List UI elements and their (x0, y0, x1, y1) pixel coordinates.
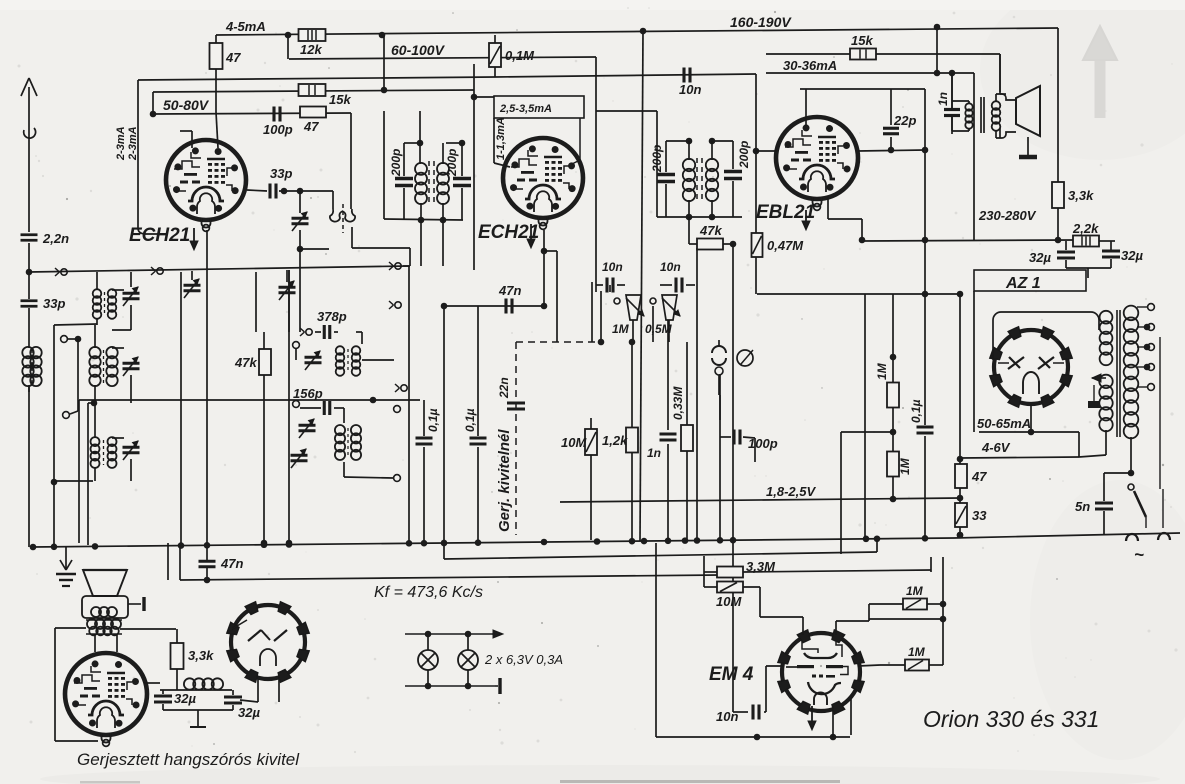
svg-text:200p: 200p (445, 149, 459, 177)
svg-text:1n: 1n (936, 92, 950, 106)
svg-text:2 x 6,3V 0,3A: 2 x 6,3V 0,3A (484, 652, 563, 667)
svg-text:32µ: 32µ (238, 705, 260, 720)
svg-text:15k: 15k (851, 33, 873, 48)
svg-text:47: 47 (225, 50, 241, 65)
svg-text:2,2k: 2,2k (1072, 221, 1099, 236)
svg-text:~: ~ (1134, 545, 1144, 564)
svg-text:0,1µ: 0,1µ (426, 408, 440, 432)
svg-text:10M: 10M (561, 435, 587, 450)
svg-text:1M: 1M (906, 584, 924, 598)
svg-text:47k: 47k (234, 355, 257, 370)
svg-text:50-65mA: 50-65mA (977, 416, 1031, 431)
svg-text:100p: 100p (263, 122, 293, 137)
svg-text:0,47M: 0,47M (767, 238, 804, 253)
svg-text:32µ: 32µ (1121, 248, 1143, 263)
svg-text:32µ: 32µ (174, 691, 196, 706)
svg-text:10n: 10n (660, 260, 681, 274)
svg-text:60-100V: 60-100V (391, 42, 446, 58)
svg-text:22n: 22n (497, 377, 511, 399)
svg-text:32µ: 32µ (1029, 250, 1051, 265)
svg-text:30-36mA: 30-36mA (783, 58, 837, 73)
svg-text:10n: 10n (602, 260, 623, 274)
svg-text:0,1µ: 0,1µ (909, 399, 923, 423)
svg-text:AZ 1: AZ 1 (1005, 275, 1041, 292)
svg-text:2,2n: 2,2n (42, 231, 69, 246)
svg-text:Gerj. kivitelnél: Gerj. kivitelnél (496, 429, 513, 532)
svg-text:1,2k: 1,2k (602, 433, 628, 448)
svg-text:Kf = 473,6 Kc/s: Kf = 473,6 Kc/s (374, 584, 483, 601)
svg-text:0,1µ: 0,1µ (463, 408, 477, 432)
svg-text:12k: 12k (300, 42, 322, 57)
svg-text:2-3mA: 2-3mA (127, 126, 139, 161)
svg-text:33: 33 (972, 508, 987, 523)
svg-text:47: 47 (971, 469, 987, 484)
svg-text:3,3k: 3,3k (1068, 188, 1094, 203)
svg-text:3,3k: 3,3k (188, 648, 214, 663)
svg-text:Orion 330 és 331: Orion 330 és 331 (923, 706, 1099, 732)
svg-text:200p: 200p (737, 141, 751, 169)
svg-text:200p: 200p (389, 149, 403, 177)
svg-text:Gerjesztett hangszórós kivitel: Gerjesztett hangszórós kivitel (77, 750, 300, 769)
svg-text:1-1,3mA: 1-1,3mA (495, 117, 507, 160)
svg-text:230-280V: 230-280V (978, 208, 1037, 223)
svg-text:160-190V: 160-190V (730, 14, 792, 30)
svg-text:156p: 156p (293, 386, 323, 401)
svg-text:1n: 1n (647, 446, 661, 460)
svg-text:1M: 1M (612, 322, 630, 336)
svg-text:33p: 33p (270, 166, 292, 181)
svg-text:1M: 1M (898, 457, 912, 475)
svg-text:200p: 200p (650, 145, 664, 173)
svg-text:EM 4: EM 4 (709, 664, 754, 685)
svg-text:4-6V: 4-6V (981, 440, 1011, 455)
svg-text:2-3mA: 2-3mA (115, 126, 127, 161)
svg-text:15k: 15k (329, 92, 351, 107)
svg-text:1M: 1M (908, 645, 926, 659)
svg-text:1,8-2,5V: 1,8-2,5V (766, 484, 816, 499)
svg-text:22p: 22p (893, 113, 916, 128)
svg-text:ECH21: ECH21 (129, 225, 190, 246)
svg-text:1M: 1M (875, 362, 889, 380)
svg-text:10M: 10M (716, 594, 742, 609)
svg-text:50-80V: 50-80V (163, 97, 210, 113)
svg-text:0,1M: 0,1M (505, 48, 535, 63)
svg-text:47k: 47k (699, 223, 722, 238)
svg-text:0,33M: 0,33M (671, 386, 685, 420)
svg-text:2,5-3,5mA: 2,5-3,5mA (499, 103, 552, 115)
svg-text:47: 47 (303, 119, 319, 134)
svg-text:4-5mA: 4-5mA (225, 19, 266, 34)
svg-text:5n: 5n (1075, 499, 1090, 514)
svg-text:378p: 378p (317, 309, 347, 324)
svg-text:33p: 33p (43, 296, 65, 311)
svg-text:10n: 10n (679, 82, 701, 97)
svg-text:47n: 47n (220, 556, 243, 571)
svg-text:47n: 47n (498, 283, 521, 298)
